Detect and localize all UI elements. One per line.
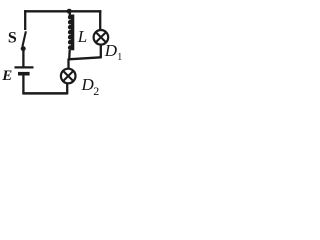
wire lamp D2 to bottom rail — [66, 84, 68, 95]
wire top rail to lamp D1 — [99, 10, 101, 30]
wire lamp D1 to middle horizontal — [100, 45, 102, 59]
svg-text:1: 1 — [117, 52, 122, 63]
battery E long plate (+) — [15, 66, 34, 68]
wire switch to battery — [22, 51, 24, 67]
lamp D1 bulb circle — [94, 30, 109, 45]
lamp D2 bulb circle — [61, 69, 76, 84]
svg-text:D: D — [104, 41, 118, 60]
svg-text:2: 2 — [93, 84, 99, 98]
svg-text:L: L — [77, 27, 87, 46]
battery E short thick plate (-) — [18, 72, 30, 76]
switch S pivot junction dot — [21, 46, 26, 51]
svg-text:E: E — [1, 68, 12, 84]
switch S blade — [22, 31, 26, 46]
wire junction to lamp D2 — [67, 59, 69, 70]
lamp D2 cross — [63, 71, 73, 81]
wire junction dot to inductor — [69, 12, 71, 16]
node junction dot on top rail — [67, 9, 72, 14]
inductor L coil bar — [71, 15, 74, 51]
wire battery to bottom rail — [22, 76, 24, 95]
wire bottom rail — [22, 92, 67, 95]
wire middle horizontal (junction to D1 branch) — [69, 57, 101, 59]
inductor L coil bumps — [68, 15, 73, 50]
lamp D1 cross — [96, 32, 106, 42]
wire left upper (to switch) — [24, 10, 26, 30]
svg-text:S: S — [8, 30, 17, 47]
wire inductor bottom to junction — [68, 50, 71, 60]
wire top rail — [24, 10, 101, 12]
